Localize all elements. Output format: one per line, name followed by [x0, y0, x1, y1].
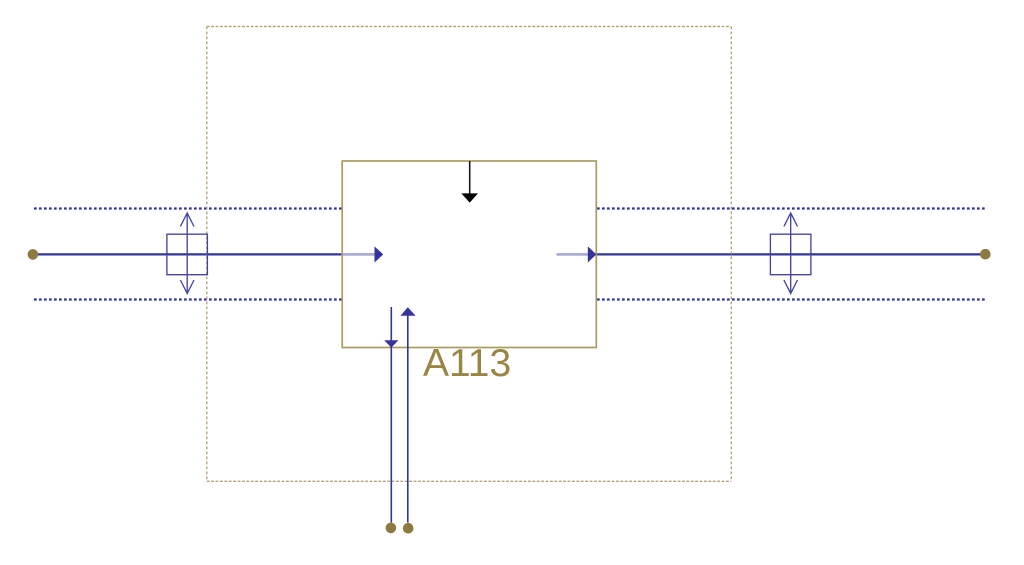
wire right horizontal (dark)	[597, 253, 981, 255]
lower dashed bus line, right segment	[597, 298, 986, 300]
lower dashed bus line, left segment	[34, 298, 343, 300]
upper dashed bus line, left segment	[34, 207, 343, 209]
node bottom-right terminal dot	[403, 523, 414, 534]
node right terminal dot	[980, 249, 991, 260]
arrowhead into component left	[375, 246, 384, 262]
bottom wire left vertical	[390, 307, 392, 523]
wire right inside component (light)	[557, 253, 589, 256]
wire left horizontal (dark)	[38, 253, 343, 255]
label A113	[423, 344, 511, 383]
arrowhead out of component right	[588, 246, 597, 262]
top control signal arrowhead (black)	[461, 193, 478, 202]
top control signal wire (black)	[469, 161, 471, 195]
bottom wire right up arrowhead	[401, 307, 416, 316]
component A113 box	[342, 161, 596, 348]
node bottom-left terminal dot	[386, 523, 397, 534]
left transfer port square	[167, 213, 208, 294]
wire left inside component (light)	[343, 253, 376, 256]
upper dashed bus line, right segment	[597, 207, 986, 209]
right transfer port square	[770, 213, 811, 294]
bottom wire right vertical	[407, 316, 409, 523]
bottom wire left down arrowhead	[384, 340, 398, 347]
node left terminal dot	[28, 249, 39, 260]
outer dashed boundary	[207, 27, 732, 482]
